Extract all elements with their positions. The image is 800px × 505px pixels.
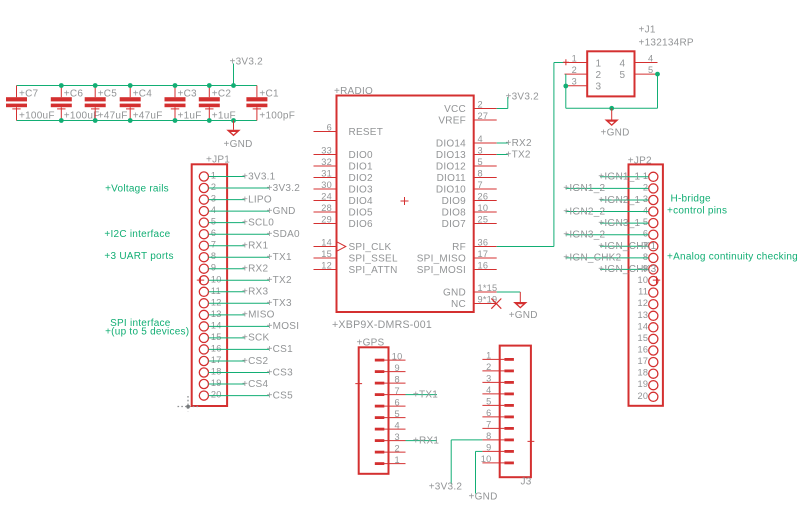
- wire: riser to 3V3.2 label: [233, 64, 235, 86]
- annotation: (up to 5 devices): [105, 327, 189, 338]
- wire: DIO13 pin 3 to TX2: [497, 149, 531, 160]
- J1 origin cross: [563, 59, 569, 65]
- capacitor C7 value 100uF: [6, 86, 55, 122]
- svg-text:10: 10: [211, 274, 222, 284]
- svg-text:RF: RF: [452, 242, 466, 253]
- JP1 pin 5 wire and net SCL0: [199, 217, 274, 229]
- svg-text:17: 17: [211, 355, 222, 365]
- JP1 dashed origin crosshair: [178, 396, 200, 412]
- svg-text:33: 33: [321, 146, 332, 156]
- svg-text:3: 3: [596, 82, 602, 93]
- svg-text:+132134RP: +132134RP: [639, 38, 694, 49]
- svg-text:3: 3: [478, 146, 483, 156]
- U1 pin 29 DIO6: [314, 215, 374, 230]
- svg-text:13: 13: [211, 309, 222, 319]
- capacitor C2 value 1uF: [199, 86, 236, 122]
- annotation: SPI interface: [110, 318, 171, 329]
- annotation: Analog continuity checking: [667, 252, 798, 263]
- svg-text:+TX3: +TX3: [267, 298, 292, 309]
- svg-text:4: 4: [486, 385, 491, 395]
- svg-text:5: 5: [478, 157, 483, 167]
- J3 pin 4: [482, 385, 514, 395]
- svg-text:20: 20: [211, 390, 222, 400]
- svg-text:1: 1: [395, 455, 400, 465]
- svg-text:NC: NC: [451, 299, 466, 310]
- svg-text:+C2: +C2: [212, 89, 232, 100]
- value label XBP9X-DMRS-001: [332, 319, 432, 331]
- svg-text:+C1: +C1: [259, 89, 279, 100]
- svg-text:+MISO: +MISO: [242, 310, 275, 321]
- GPS pin 6: [375, 397, 406, 407]
- U1 pin 17 SPI_MISO: [417, 249, 497, 264]
- svg-text:+TX2: +TX2: [506, 149, 531, 160]
- svg-text:6: 6: [211, 228, 216, 238]
- svg-text:+SCK: +SCK: [242, 333, 269, 344]
- svg-text:+IGN3_2: +IGN3_2: [563, 230, 605, 241]
- connector J1 body: [587, 51, 634, 96]
- svg-text:+3V3.2: +3V3.2: [429, 481, 463, 492]
- svg-text:11: 11: [211, 286, 221, 296]
- svg-text:+GND: +GND: [509, 310, 538, 321]
- svg-text:DIO5: DIO5: [349, 207, 374, 218]
- GPS pin 7: [375, 386, 406, 396]
- annotation: 3 UART ports: [104, 251, 173, 262]
- svg-text:2: 2: [596, 70, 602, 81]
- JP1 pin 1 wire and net 3V3.1: [199, 171, 275, 183]
- svg-text:SPI_MISO: SPI_MISO: [417, 253, 466, 264]
- JP1 origin cross: [197, 276, 204, 283]
- svg-text:+3 UART ports: +3 UART ports: [104, 251, 173, 262]
- U1 pin 26 DIO9: [442, 192, 497, 207]
- JP2 pin 1: [598, 171, 658, 183]
- svg-text:+GPS: +GPS: [357, 338, 385, 349]
- svg-text:SPI_MOSI: SPI_MOSI: [417, 265, 466, 276]
- svg-text:DIO14: DIO14: [436, 138, 466, 149]
- svg-text:DIO11: DIO11: [437, 173, 467, 184]
- svg-text:7: 7: [211, 240, 216, 250]
- U1 pin 12 SPI_ATTN: [314, 261, 398, 276]
- svg-text:8: 8: [211, 251, 216, 261]
- wire: J3 pin 8 to 3V3.2: [429, 440, 483, 492]
- JP1 pin 9 wire and net RX2: [199, 263, 268, 275]
- connector JP1: [192, 155, 231, 407]
- J3 pin 5: [482, 397, 514, 407]
- GPS pin 8: [375, 374, 406, 384]
- JP1 pin 6 wire and net SDA0: [199, 228, 300, 240]
- svg-text:SPI_CLK: SPI_CLK: [349, 242, 392, 253]
- svg-text:2: 2: [478, 100, 483, 110]
- junction: J1 pin 3: [563, 84, 568, 89]
- GPS pin 3: [375, 432, 406, 442]
- svg-text:2: 2: [395, 443, 400, 453]
- svg-text:+C7: +C7: [19, 89, 39, 100]
- ground symbol at U1 GND pin: [509, 292, 538, 321]
- U1 pin 33 DIO0: [314, 146, 374, 161]
- JP2 pin 16: [637, 345, 657, 356]
- J3 pin 3: [482, 374, 514, 384]
- J3 pin 9: [482, 443, 514, 453]
- svg-text:+TX1: +TX1: [413, 389, 438, 400]
- svg-text:DIO7: DIO7: [442, 219, 467, 230]
- J3 pin 2: [482, 362, 514, 372]
- annotation: control pins: [667, 206, 727, 217]
- svg-text:+Voltage rails: +Voltage rails: [105, 184, 169, 195]
- svg-text:1: 1: [596, 59, 602, 70]
- svg-text:29: 29: [321, 215, 332, 225]
- svg-text:+CS5: +CS5: [267, 390, 293, 401]
- JP1 pin 11 wire and net RX3: [199, 286, 268, 298]
- svg-text:9: 9: [211, 263, 216, 273]
- svg-text:+IGN2_2: +IGN2_2: [563, 206, 605, 217]
- J1 name and value labels: [639, 25, 694, 49]
- svg-text:12: 12: [637, 298, 648, 308]
- J1 pin 5: [635, 65, 658, 75]
- wire: J1 pin 5 drop: [657, 74, 659, 108]
- svg-text:2: 2: [643, 182, 648, 192]
- JP2 pin 3: [598, 194, 658, 206]
- JP1 pin 16 wire and net CS1: [199, 343, 293, 355]
- GPS pin 9: [375, 363, 406, 373]
- J3 pin 10: [481, 454, 514, 464]
- svg-text:+C4: +C4: [133, 89, 153, 100]
- GPS origin cross: [355, 380, 362, 387]
- U1 pin 6 RESET: [314, 123, 384, 138]
- J1 inside pad numbers: [596, 59, 626, 93]
- J1 pin 2: [565, 65, 588, 75]
- svg-text:+IGN_CHK1: +IGN_CHK1: [598, 241, 656, 252]
- node: 3V3.2 net label: [230, 57, 264, 68]
- U1 pin 9*19 NC: [451, 295, 497, 310]
- svg-text:+IGN_CHK3: +IGN_CHK3: [598, 264, 656, 275]
- svg-text:+RX3: +RX3: [242, 287, 268, 298]
- svg-text:10: 10: [478, 203, 489, 213]
- U1 pin 14 SPI_CLK: [314, 238, 392, 253]
- svg-text:15: 15: [321, 249, 332, 259]
- svg-text:+SCL0: +SCL0: [242, 217, 274, 228]
- svg-text:DIO2: DIO2: [349, 173, 374, 184]
- svg-text:VREF: VREF: [438, 115, 466, 126]
- svg-text:+IGN2_1: +IGN2_1: [598, 195, 640, 206]
- svg-text:4: 4: [643, 206, 648, 216]
- svg-text:9*19: 9*19: [478, 295, 498, 305]
- svg-text:DIO10: DIO10: [436, 184, 466, 195]
- svg-text:+I2C interface: +I2C interface: [104, 229, 170, 240]
- U1 pin 36 RF: [452, 238, 497, 253]
- U1 pin 10 DIO8: [442, 203, 497, 218]
- U1 pin 7 DIO10: [436, 180, 497, 195]
- svg-text:8: 8: [643, 252, 648, 262]
- JP1 pin 12 wire and net TX3: [199, 297, 292, 309]
- svg-text:+100pF: +100pF: [259, 111, 295, 122]
- U1 pin 16 SPI_MOSI: [417, 261, 497, 276]
- JP2 pin 5: [598, 217, 658, 229]
- svg-text:+JP1: +JP1: [206, 155, 230, 166]
- svg-text:DIO9: DIO9: [442, 196, 467, 207]
- JP2 pin 9: [598, 263, 658, 275]
- svg-text:16: 16: [211, 343, 222, 353]
- U1 pin 8 DIO11: [437, 169, 497, 184]
- wire: J3 pin 9 to GND: [469, 451, 498, 502]
- svg-text:2: 2: [486, 362, 491, 372]
- svg-text:DIO12: DIO12: [436, 161, 466, 172]
- svg-text:DIO3: DIO3: [349, 184, 374, 195]
- svg-text:5: 5: [643, 217, 648, 227]
- junction: J1 pin 5: [655, 72, 660, 77]
- JP1 pin 20 wire and net CS5: [199, 390, 293, 402]
- svg-text:6: 6: [327, 123, 332, 133]
- U1 pin 30 DIO3: [314, 180, 374, 195]
- svg-text:18: 18: [211, 367, 222, 377]
- svg-text:+3V3.2: +3V3.2: [267, 183, 301, 194]
- svg-text:DIO13: DIO13: [436, 150, 466, 161]
- connector GPS body: [357, 338, 389, 474]
- svg-text:+3V3.2: +3V3.2: [230, 57, 264, 68]
- svg-text:15: 15: [211, 332, 222, 342]
- svg-text:7: 7: [395, 386, 400, 396]
- svg-text:15: 15: [637, 333, 648, 343]
- svg-text:DIO4: DIO4: [349, 196, 374, 207]
- wire: J1 ground bottom run: [566, 107, 658, 109]
- wire: GPS pin 7 to TX1: [406, 389, 439, 400]
- svg-text:+(up to 5 devices): +(up to 5 devices): [105, 327, 189, 338]
- svg-text:+C5: +C5: [98, 89, 118, 100]
- svg-text:+IGN1_2: +IGN1_2: [563, 183, 605, 194]
- JP2 pin 13: [637, 310, 657, 321]
- svg-text:+CS3: +CS3: [267, 367, 293, 378]
- svg-text:4: 4: [620, 59, 626, 70]
- JP1 pin 8 wire and net TX1: [199, 251, 292, 263]
- svg-text:19: 19: [211, 378, 222, 388]
- svg-text:+TX2: +TX2: [267, 275, 292, 286]
- svg-text:24: 24: [321, 192, 332, 202]
- GPS pin 4: [375, 420, 406, 430]
- svg-text:14: 14: [321, 238, 332, 248]
- JP1 pin 7 wire and net RX1: [199, 240, 268, 252]
- svg-text:DIO8: DIO8: [442, 207, 467, 218]
- svg-text:+CS1: +CS1: [267, 344, 293, 355]
- JP2 pin 7: [598, 240, 658, 252]
- annotation: Voltage rails: [105, 184, 169, 195]
- svg-text:+CS2: +CS2: [242, 356, 268, 367]
- svg-text:+47uF: +47uF: [133, 111, 163, 122]
- ground symbol below capacitor bank: [224, 121, 253, 151]
- svg-text:+47uF: +47uF: [98, 111, 128, 122]
- IC U1 origin cross: [401, 197, 409, 205]
- svg-text:28: 28: [321, 203, 332, 213]
- svg-text:8: 8: [395, 374, 400, 384]
- J3 pin 1: [482, 351, 514, 361]
- svg-text:10: 10: [637, 275, 648, 285]
- capacitor C6 value 100uF: [51, 86, 100, 122]
- JP2 pin 8: [563, 252, 658, 264]
- svg-text:+IGN1_1: +IGN1_1: [598, 172, 640, 183]
- svg-text:H-bridge: H-bridge: [671, 194, 712, 205]
- svg-text:+JP2: +JP2: [628, 156, 652, 167]
- JP2 pin 20: [637, 391, 657, 402]
- svg-text:+RX1: +RX1: [413, 435, 439, 446]
- svg-text:3: 3: [486, 374, 491, 384]
- GPS pin 1: [375, 455, 406, 465]
- svg-text:+RX1: +RX1: [242, 241, 268, 252]
- svg-text:1: 1: [211, 171, 216, 181]
- svg-text:9: 9: [395, 363, 400, 373]
- JP1 pin 18 wire and net CS3: [199, 367, 293, 379]
- GPS pin 10: [375, 351, 406, 361]
- J3 origin cross: [528, 438, 535, 445]
- svg-text:20: 20: [637, 391, 648, 401]
- JP2 pin 10: [637, 275, 657, 286]
- JP2 pin 12: [637, 298, 657, 309]
- capacitor C4 value 47uF: [120, 86, 163, 122]
- svg-text:3: 3: [395, 432, 400, 442]
- NC pin no-connect X mark: [491, 299, 501, 309]
- JP1 pin 10 wire and net TX2: [199, 274, 292, 286]
- svg-text:5: 5: [648, 65, 653, 75]
- svg-text:2: 2: [572, 65, 577, 75]
- capacitor C5 value 47uF: [85, 86, 128, 122]
- svg-text:17: 17: [478, 249, 489, 259]
- connector J3 body: [500, 346, 532, 488]
- svg-text:7: 7: [486, 420, 491, 430]
- wire: GPS pin 3 to RX1: [406, 435, 440, 446]
- JP2 pin 4: [563, 206, 658, 218]
- svg-text:4: 4: [648, 53, 653, 63]
- wire: RF pin 36 to J1 pin 1: [497, 63, 565, 247]
- svg-text:+C6: +C6: [64, 89, 84, 100]
- JP1 pin 19 wire and net CS4: [199, 378, 268, 390]
- svg-text:+RADIO: +RADIO: [334, 86, 373, 97]
- svg-text:4: 4: [478, 134, 483, 144]
- svg-text:12: 12: [321, 261, 332, 271]
- svg-text:2: 2: [211, 182, 216, 192]
- svg-text:+GND: +GND: [267, 206, 296, 217]
- U1 pin 31 DIO2: [314, 169, 374, 184]
- svg-text:30: 30: [321, 180, 332, 190]
- svg-text:27: 27: [478, 111, 489, 121]
- wire: DIO14 pin 4 to RX2: [497, 138, 532, 149]
- svg-text:+RX2: +RX2: [242, 264, 268, 275]
- capacitor C1 value 100pF: [246, 86, 295, 122]
- svg-text:8: 8: [478, 169, 483, 179]
- svg-text:10: 10: [392, 351, 403, 361]
- svg-text:+control pins: +control pins: [667, 206, 727, 217]
- svg-text:5: 5: [395, 409, 400, 419]
- JP2 pin 17: [637, 356, 657, 367]
- svg-text:13: 13: [637, 310, 648, 320]
- JP2 pin 6: [563, 229, 658, 241]
- U1 pin 5 DIO12: [436, 157, 497, 172]
- wire: GND bottom bus of capacitor bank: [17, 120, 257, 122]
- svg-text:8: 8: [486, 431, 491, 441]
- ground symbol below J1: [601, 108, 630, 138]
- op-amp / IC U1 XBP9X-DMRS-001 body: [337, 96, 474, 313]
- capacitor C3 value 1uF: [165, 86, 202, 122]
- svg-text:+XBP9X-DMRS-001: +XBP9X-DMRS-001: [332, 319, 432, 331]
- connector JP2: [628, 156, 663, 406]
- svg-text:14: 14: [637, 321, 648, 331]
- svg-text:DIO6: DIO6: [349, 219, 374, 230]
- J3 pin 6: [482, 408, 514, 418]
- junction: J1 ground tap: [609, 106, 614, 111]
- svg-text:16: 16: [478, 261, 489, 271]
- svg-text:32: 32: [321, 157, 332, 167]
- svg-text:25: 25: [478, 215, 489, 225]
- JP1 pin 2 wire and net 3V3.2: [199, 182, 300, 194]
- svg-text:J3: J3: [521, 477, 532, 488]
- JP2 pin 14: [637, 321, 657, 332]
- svg-text:DIO0: DIO0: [349, 150, 374, 161]
- svg-text:4: 4: [395, 420, 400, 430]
- JP2 pin 19: [637, 379, 657, 390]
- svg-text:VCC: VCC: [444, 104, 466, 115]
- svg-text:+TX1: +TX1: [267, 252, 292, 263]
- svg-text:16: 16: [637, 345, 648, 355]
- svg-text:5: 5: [620, 70, 626, 81]
- svg-text:+IGN3_1: +IGN3_1: [598, 218, 640, 229]
- U1 pin 24 DIO4: [314, 192, 374, 207]
- node: 3V3.2 label at U1 VCC: [506, 92, 540, 103]
- wire: U1 GND pin to ground: [497, 291, 521, 293]
- svg-text:SPI_ATTN: SPI_ATTN: [349, 265, 398, 276]
- svg-text:3: 3: [211, 194, 216, 204]
- svg-text:14: 14: [211, 320, 222, 330]
- svg-text:+3V3.2: +3V3.2: [506, 92, 540, 103]
- JP2 pin 15: [637, 333, 657, 344]
- svg-text:18: 18: [637, 368, 648, 378]
- svg-text:6: 6: [643, 229, 648, 239]
- svg-text:1: 1: [643, 171, 648, 181]
- svg-text:+SDA0: +SDA0: [267, 229, 300, 240]
- svg-text:6: 6: [395, 397, 400, 407]
- svg-text:+C3: +C3: [178, 89, 198, 100]
- svg-text:+GND: +GND: [224, 139, 253, 150]
- svg-text:17: 17: [637, 356, 648, 366]
- svg-text:12: 12: [211, 297, 222, 307]
- JP1 pin 3 wire and net LIPO: [199, 194, 272, 206]
- J3 pin 8: [482, 431, 514, 441]
- JP2 pin 2: [563, 182, 658, 194]
- U1 pin 4 DIO14: [436, 134, 497, 149]
- JP1 pin 4 wire and net GND: [199, 205, 295, 217]
- JP2 pin 11: [638, 287, 658, 298]
- junction dots on capacitor buses: [59, 83, 236, 123]
- svg-text:1*15: 1*15: [478, 283, 498, 293]
- svg-text:+GND: +GND: [469, 492, 498, 503]
- svg-text:1: 1: [572, 53, 577, 63]
- svg-text:RESET: RESET: [349, 127, 384, 138]
- svg-text:+1uF: +1uF: [178, 111, 202, 122]
- JP2 origin cross: [653, 276, 660, 283]
- svg-text:7: 7: [478, 180, 483, 190]
- svg-text:19: 19: [637, 379, 648, 389]
- U1 pin 1*15 GND: [443, 283, 497, 298]
- svg-text:DIO1: DIO1: [349, 161, 374, 172]
- svg-text:+IGN_CHK2: +IGN_CHK2: [563, 253, 621, 264]
- svg-text:+RX2: +RX2: [506, 138, 532, 149]
- J1 pin 4: [635, 53, 658, 63]
- wire: J1 pin 2/3 to ground: [565, 74, 567, 108]
- svg-text:5: 5: [486, 397, 491, 407]
- U1 pin 28 DIO5: [314, 203, 374, 218]
- svg-text:+Analog continuity checking: +Analog continuity checking: [667, 252, 798, 263]
- svg-text:9: 9: [486, 443, 491, 453]
- node: RADIO name label: [334, 86, 373, 97]
- svg-text:+LIPO: +LIPO: [242, 194, 272, 205]
- U1 pin 3 DIO13: [436, 146, 497, 161]
- svg-text:1: 1: [486, 351, 491, 361]
- annotation: I2C interface: [104, 229, 170, 240]
- wire: 3V3.2 top bus of capacitor bank: [17, 85, 257, 87]
